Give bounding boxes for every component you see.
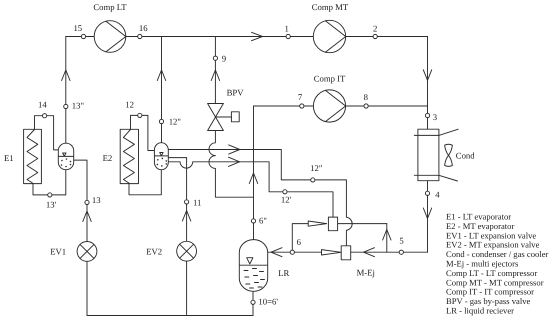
node 12 <box>138 113 142 117</box>
svg-text:13': 13' <box>46 199 57 209</box>
node 13 <box>85 200 89 204</box>
wire E2 vessel bottom return to coil <box>129 170 161 195</box>
compressor U:CompMT <box>313 20 345 52</box>
liquid dots in E1 vessel <box>61 158 72 167</box>
svg-text:7: 7 <box>298 92 303 102</box>
svg-text:12: 12 <box>125 100 134 110</box>
wire right vertical drop to condenser top <box>427 37 429 130</box>
wire Comp IT suction line y=105.5 <box>254 105 428 107</box>
wire node 13 feed from EV1 to E1 vessel <box>74 160 87 241</box>
svg-text:6": 6" <box>259 215 267 225</box>
node 12' <box>283 190 287 194</box>
svg-text:13: 13 <box>92 195 101 205</box>
valve BPV bowtie with actuator <box>208 104 240 131</box>
svg-text:12': 12' <box>281 195 292 205</box>
node 16 <box>138 34 142 38</box>
node 13' <box>48 193 52 197</box>
condenser Cond <box>414 129 458 181</box>
node 13" <box>64 104 68 108</box>
node 14 <box>43 114 47 118</box>
svg-text:12": 12" <box>169 117 181 127</box>
node 7 <box>300 104 304 108</box>
wire 12' line C: E2 vessel liquid to upper ejector suction with dip <box>168 162 333 217</box>
wire main discharge header y=36.8 from corner above E1 to right drop <box>66 36 428 38</box>
svg-text:14: 14 <box>38 100 47 110</box>
expansion valve EV2 <box>177 241 197 261</box>
svg-text:LR - liquid reciever: LR - liquid reciever <box>446 306 514 316</box>
svg-text:EV1: EV1 <box>50 246 66 256</box>
flow arrow left into LR <box>271 248 282 257</box>
flow arrow down on right drop <box>423 70 431 81</box>
svg-text:Cond: Cond <box>456 151 475 161</box>
wire node 6 line LR inlet from lower ejector <box>267 251 321 253</box>
svg-text:6: 6 <box>297 237 302 247</box>
svg-text:8: 8 <box>364 92 369 102</box>
node 1 <box>286 34 290 38</box>
flow arrow up on BPV riser <box>211 70 219 81</box>
svg-text:2: 2 <box>373 23 377 33</box>
svg-text:Comp IT: Comp IT <box>314 73 346 83</box>
compressor U:CompLT <box>94 21 126 53</box>
svg-text:3: 3 <box>433 112 437 122</box>
node 15 <box>81 34 85 38</box>
svg-text:EV2: EV2 <box>146 246 162 256</box>
wire node 5 line from condenser drop to lower ejector <box>351 251 428 253</box>
node 12" at ejector path <box>311 178 315 182</box>
node 6 <box>290 250 294 254</box>
svg-text:5: 5 <box>399 235 403 245</box>
flow arrow up on 12" riser <box>157 70 165 81</box>
wire 6" vertical from Comp IT line down to LR top <box>253 106 255 240</box>
svg-text:1: 1 <box>285 23 289 33</box>
svg-text:9: 9 <box>222 54 226 64</box>
node 5 <box>399 250 403 254</box>
wire E1 coil top to vessel via node 14 <box>35 116 59 150</box>
wire node 11 feed from EV2 to E2 vessel <box>168 158 186 242</box>
node 9 <box>213 56 217 60</box>
separator vessel at E2 <box>154 143 168 170</box>
svg-text:E2: E2 <box>103 153 113 163</box>
evaporator E2 coil <box>120 129 138 183</box>
evaporator E1 coil <box>24 129 42 183</box>
node 11 <box>185 200 189 204</box>
flow arrow left into lower ejector <box>364 248 375 257</box>
flow arrow up on 6" line <box>249 173 257 184</box>
svg-text:BPV: BPV <box>227 87 245 97</box>
svg-text:10=6': 10=6' <box>258 297 278 307</box>
wire 12" line A: E2 vessel top to lower ejector suction with hop arc <box>166 150 352 246</box>
wire E1 vessel bottom return to coil via node 13' <box>33 170 66 195</box>
flow arrow up above EV1 <box>83 211 91 222</box>
svg-text:16: 16 <box>139 23 148 33</box>
liquid dots in E2 vessel <box>157 158 168 167</box>
flow arrow up above EV2 <box>182 211 190 222</box>
svg-text:Comp LT: Comp LT <box>93 2 127 12</box>
flow arrow right on 12" line A <box>229 145 240 154</box>
svg-text:LR: LR <box>278 268 289 278</box>
node 12" at riser <box>159 119 163 123</box>
wire bottom liquid line from LR <box>87 315 253 317</box>
liquid receiver LR <box>239 240 267 292</box>
wire condenser outlet drop <box>427 181 429 253</box>
expansion valve EV1 <box>77 242 97 262</box>
wire EV1 to bottom liquid line <box>86 261 88 315</box>
wire 13" riser from E1 vessel top to header <box>65 37 67 144</box>
flow arrow up on 13" riser <box>62 70 70 81</box>
separator vessel at E1 <box>58 143 73 170</box>
node 6" <box>251 219 255 223</box>
flow arrow down below node 4 <box>423 208 431 219</box>
node 8 <box>364 104 368 108</box>
node 4 <box>425 191 429 195</box>
svg-text:E1: E1 <box>4 153 14 163</box>
node 3 <box>425 113 429 117</box>
wire BPV below valve with two hops and branch to 6" line <box>209 131 254 198</box>
svg-text:Comp MT: Comp MT <box>312 2 349 12</box>
svg-text:M-Ej: M-Ej <box>357 268 375 278</box>
wire LR bottom outlet through node 10=6' <box>252 291 254 315</box>
wire BPV riser from header down to valve <box>214 37 216 104</box>
svg-text:15: 15 <box>73 23 82 33</box>
node 2 <box>373 34 377 38</box>
ejector upper of M-Ej <box>308 217 337 231</box>
wire EV2 to bottom liquid line <box>186 261 188 315</box>
ejector lower of M-Ej <box>322 246 351 260</box>
wire 12" riser E2 vessel top to header <box>161 37 163 143</box>
compressor U:CompIT <box>313 90 345 122</box>
flow arrow right on header <box>252 32 263 40</box>
svg-text:11: 11 <box>193 197 201 207</box>
flow arrow right on 12' line C <box>229 157 240 166</box>
svg-text:12": 12" <box>310 163 322 173</box>
wire node 6 branch up to upper ejector nozzle <box>292 224 308 253</box>
flow arrow up on ejector feed branch <box>383 230 391 241</box>
node 10=6' <box>251 300 255 304</box>
svg-text:4: 4 <box>435 190 440 200</box>
wire ejector feed branch vertical <box>386 224 388 253</box>
svg-text:13": 13" <box>72 100 84 110</box>
wire E2 coil top to vessel via node 12 <box>131 115 155 150</box>
wire upper ejector discharge to feed branch <box>338 223 387 225</box>
